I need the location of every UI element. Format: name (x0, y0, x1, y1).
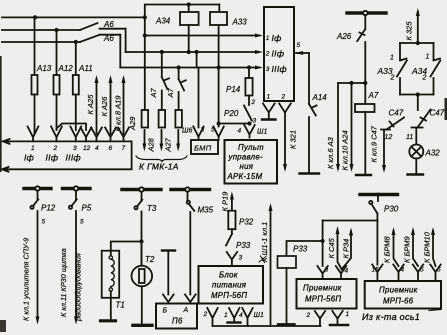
switch P30 (369, 197, 399, 221)
svg-text:15: 15 (372, 267, 380, 274)
connector fork pin 4 MRP-56P with arrows K S45 K R34 (327, 226, 353, 279)
svg-text:3: 3 (201, 127, 205, 134)
connector fork pin 6 (105, 128, 116, 142)
discharger T2 (132, 242, 155, 326)
svg-text:А6: А6 (103, 20, 114, 29)
svg-text:6: 6 (109, 145, 113, 152)
svg-text:11: 11 (406, 134, 413, 141)
svg-text:ния: ния (240, 162, 254, 171)
svg-text:Приемник: Приемник (379, 286, 418, 295)
connector fork pin 12 (81, 128, 92, 142)
power bus bar T3 (122, 187, 161, 191)
label Sh6 (182, 128, 192, 135)
arrow K P19 and fuse P32 (221, 191, 254, 234)
wire from A6 upper to IIf line (125, 29, 127, 52)
svg-text:1: 1 (224, 312, 228, 319)
svg-text:2: 2 (306, 312, 311, 319)
connector strip GMK-1A (2, 139, 132, 172)
svg-text:1: 1 (426, 54, 430, 61)
svg-text:Приемник: Приемник (303, 284, 342, 293)
box bottom pin numbers (267, 94, 286, 101)
fuse A12 (54, 30, 74, 130)
svg-text:Пульт: Пульт (238, 143, 264, 152)
svg-text:Р20: Р20 (224, 109, 239, 118)
svg-text:К 321: К 321 (289, 130, 298, 149)
svg-text:радиооборудования: радиооборудования (74, 253, 83, 322)
connector fork pin 3 BMP (193, 127, 204, 141)
svg-text:К Р19: К Р19 (221, 191, 230, 212)
svg-text:1: 1 (267, 94, 271, 101)
power bus bar M35 (171, 187, 210, 191)
svg-text:К кл.11 КР30 щитка: К кл.11 КР30 щитка (59, 248, 68, 317)
wire P30 to MRP-56P pin3 and MRP-66 pin15 (321, 221, 378, 267)
arrow K A26 (100, 75, 113, 134)
svg-text:7: 7 (122, 145, 126, 152)
svg-text:Р33: Р33 (236, 241, 251, 250)
svg-text:А32: А32 (425, 149, 441, 158)
switch M35 to P6 pin A (185, 192, 214, 304)
svg-text:С47: С47 (389, 109, 404, 118)
connector fork box pin1 with ground bar (262, 104, 276, 120)
fuse A33 (210, 12, 247, 27)
svg-text:Ш6: Ш6 (182, 128, 192, 135)
block ARK receiver (If IIf IIIf box) (264, 7, 294, 101)
svg-text:2: 2 (53, 145, 58, 152)
connector fork pin 2 below MRP-56P (306, 311, 326, 326)
connector fork pin 3 (70, 127, 81, 142)
svg-text:4: 4 (95, 145, 99, 152)
svg-text:К ГМК-1А: К ГМК-1А (139, 162, 179, 172)
svg-text:IIIф: IIIф (272, 64, 287, 74)
svg-text:А13: А13 (36, 64, 52, 73)
connector fork pin 4 MRP-66 with arrow K BRM8 (383, 227, 405, 281)
svg-text:А28: А28 (147, 137, 156, 152)
arrow K kl.6 A3 (326, 83, 340, 172)
connector fork pin 15 MRP-66 (372, 265, 383, 282)
fuse A34 (155, 12, 199, 26)
power bus bar P12 (24, 186, 51, 190)
svg-text:3: 3 (73, 145, 77, 152)
transformer T1 (loop coil) (101, 242, 142, 321)
wire BMP pin3 feed (197, 52, 199, 128)
svg-text:К кл.1 усилителя СПУ-9: К кл.1 усилителя СПУ-9 (22, 238, 31, 321)
svg-text:А11: А11 (78, 64, 93, 73)
connector fork pin 2 (51, 127, 62, 142)
breaker A34 (bridge right branch) (411, 43, 440, 95)
svg-text:М35: М35 (198, 206, 214, 215)
connector fork pin 3 blok pitaniya (227, 252, 243, 266)
svg-text:Б: Б (163, 308, 168, 315)
wire from A6 lower to IIIf line (119, 35, 121, 68)
connector fork Sh1 pin 4 (238, 125, 268, 138)
switch A6 (lower) (80, 34, 120, 43)
svg-text:Т2: Т2 (145, 255, 155, 264)
svg-text:3: 3 (266, 66, 270, 73)
wire IIf line with arrow (126, 50, 263, 54)
svg-text:2: 2 (281, 94, 286, 101)
svg-text:А12: А12 (58, 64, 74, 73)
svg-text:Р33: Р33 (293, 245, 308, 254)
text Iz k-ta os 1 (362, 310, 441, 323)
wire phase1 riser to fuse header (145, 2, 220, 17)
switch C47 contact 12 and arrow K kl.9 C47 (370, 109, 405, 174)
strip pin numbers (31, 145, 126, 152)
wire bus phase 3 (2, 40, 80, 44)
svg-text:3: 3 (253, 118, 257, 125)
connector fork pin 6 MRP-66 with arrow K BRM10 (423, 227, 442, 281)
svg-text:А: А (183, 307, 189, 314)
connector fork pin 1 (28, 127, 39, 142)
antenna stub to P6 pin B (162, 251, 175, 304)
switch T3 (134, 192, 156, 266)
svg-text:Блок: Блок (219, 271, 238, 280)
svg-text:2: 2 (251, 99, 256, 106)
svg-text:АРК-15М: АРК-15М (227, 172, 263, 181)
relay coil P33 with chassis bar (278, 241, 323, 325)
svg-text:К БРМ8: К БРМ8 (383, 235, 392, 263)
block P6 (156, 304, 197, 329)
svg-text:Р32: Р32 (239, 218, 254, 227)
svg-text:К А25: К А25 (86, 94, 95, 115)
switch A26 (336, 15, 365, 83)
switch A7 and fuse column A28 (147, 52, 170, 153)
svg-text:Р30: Р30 (384, 205, 399, 214)
connector fork pin 2 below blok (203, 308, 218, 326)
arrow K 325 (400, 8, 434, 45)
svg-text:1: 1 (31, 145, 35, 152)
svg-text:5: 5 (42, 219, 46, 226)
fuse A11 (73, 42, 93, 130)
wire bus phase 1 (2, 15, 147, 19)
svg-text:IIф: IIф (46, 153, 59, 163)
block Priemnik MRP-56P (297, 279, 357, 309)
svg-text:IIф: IIф (272, 49, 285, 59)
svg-text:5: 5 (211, 127, 215, 134)
wire A33 bottom to IIIf and pin5 drop (217, 25, 221, 127)
svg-text:Iф: Iф (24, 153, 34, 163)
svg-text:Р5: Р5 (82, 204, 92, 213)
svg-text:Ш1: Ш1 (257, 129, 267, 136)
svg-text:3: 3 (325, 267, 329, 274)
switch A6 (upper) (80, 20, 126, 30)
svg-text:К БРМ10: К БРМ10 (423, 231, 432, 263)
svg-text:4: 4 (345, 268, 349, 275)
switch P20 (224, 106, 257, 125)
svg-text:2: 2 (265, 51, 270, 58)
svg-text:А26: А26 (336, 32, 352, 41)
arrow K A25 (86, 75, 99, 134)
connector fork pin 1 below MRP-56P with ground (330, 311, 350, 325)
arrow K Sh1-1 kl.1 (259, 203, 273, 326)
svg-text:Т3: Т3 (147, 204, 157, 213)
svg-text:питания: питания (212, 281, 247, 290)
svg-text:1: 1 (346, 311, 350, 318)
lamp A32 (408, 128, 441, 175)
fuse A7 with ground (355, 83, 379, 175)
svg-text:Из к-та ось1: Из к-та ось1 (362, 312, 420, 322)
switch A7 and fuse column A27 (164, 68, 186, 153)
svg-text:К Р34: К Р34 (342, 239, 351, 259)
connector fork pin 5 MRP-66 with arrow K BRM9 (403, 227, 425, 281)
svg-text:К кл.9 С47: К кл.9 С47 (370, 125, 379, 162)
svg-text:управле-: управле- (228, 153, 264, 162)
svg-text:А7: А7 (166, 87, 175, 98)
svg-text:5: 5 (297, 42, 301, 49)
svg-text:IIIф: IIIф (66, 153, 81, 163)
svg-text:МРП-66: МРП-66 (383, 297, 414, 306)
arrow K kl.10 A24 (341, 83, 354, 172)
svg-text:К Ш1-1 кл.1: К Ш1-1 кл.1 (260, 222, 269, 262)
wire bridge bottom (400, 92, 434, 96)
svg-text:4: 4 (401, 267, 405, 274)
wire If line with arrow (143, 17, 263, 37)
svg-text:А7: А7 (368, 91, 379, 100)
svg-text:5: 5 (420, 267, 424, 274)
svg-text:4: 4 (239, 312, 243, 319)
svg-text:А27: А27 (164, 137, 173, 152)
svg-text:А33: А33 (232, 18, 248, 27)
svg-text:К БРМ9: К БРМ9 (403, 235, 412, 263)
svg-text:К кл.6 А3: К кл.6 А3 (326, 136, 335, 169)
svg-text:1: 1 (266, 35, 270, 42)
svg-text:А34: А34 (155, 17, 171, 26)
connector fork pin 4 below blok (239, 308, 264, 326)
brace and text K GMK-1A (136, 156, 187, 172)
fuse A13 (32, 17, 52, 133)
power bus bar A26 (347, 11, 386, 15)
wire bottom common net (213, 325, 321, 327)
wire bus phase 2 (2, 28, 80, 32)
block Priemnik MRP-66 (365, 281, 441, 309)
svg-text:4: 4 (238, 128, 242, 135)
power bus bar P30 (360, 193, 398, 197)
wire A34 bottom to IIf (187, 25, 191, 54)
svg-text:Ш1: Ш1 (254, 312, 264, 319)
switch P33 (226, 234, 251, 250)
connector fork box pin2 and arrow K321 (279, 104, 297, 173)
svg-text:5: 5 (80, 219, 84, 226)
switch A14 with ground (300, 53, 328, 174)
svg-text:А6: А6 (103, 34, 114, 43)
svg-text:2: 2 (422, 75, 427, 82)
svg-text:2: 2 (390, 75, 395, 82)
svg-text:К кл.8 А19: К кл.8 А19 (114, 95, 123, 132)
switch P12 and arrow K kl.1 usilitelya SPU-9 (22, 191, 56, 325)
switch C47 contact 11 (406, 95, 445, 142)
svg-text:МРП-56П: МРП-56П (211, 291, 247, 300)
svg-text:А29: А29 (128, 116, 137, 131)
svg-text:Iф: Iф (272, 33, 282, 43)
block BMP (191, 140, 218, 154)
fuse column A29 (128, 36, 148, 152)
svg-text:Р14: Р14 (226, 85, 241, 94)
svg-text:12: 12 (385, 134, 393, 141)
svg-text:А14: А14 (312, 93, 328, 102)
svg-text:А7: А7 (149, 87, 158, 98)
wire A26 branch header (338, 81, 367, 85)
svg-text:К А26: К А26 (100, 96, 109, 117)
svg-text:Т1: Т1 (116, 301, 125, 310)
svg-text:С47: С47 (430, 109, 445, 118)
connector fork pin 5 (211, 127, 224, 141)
svg-text:2: 2 (203, 311, 208, 318)
svg-text:К 325: К 325 (405, 21, 414, 41)
breaker A33 (bridge left branch) (377, 43, 407, 95)
wire bridge pin3 to pin12 (57, 124, 87, 131)
svg-text:БМП: БМП (194, 144, 212, 153)
svg-text:МРП-56П: МРП-56П (305, 295, 341, 304)
connector fork pin 4 (91, 128, 102, 142)
box pin 5 arrow entering right side (295, 42, 309, 55)
svg-text:Р12: Р12 (41, 204, 56, 213)
strip phase labels (24, 153, 81, 163)
block Blok pitaniya MRP-56P (199, 266, 264, 304)
connector fork pin 3 MRP-56P (317, 266, 328, 279)
block Pult upravleniya ARK-15M (225, 140, 278, 184)
svg-text:П6: П6 (172, 317, 183, 326)
svg-text:К С45: К С45 (327, 237, 336, 258)
box pin labels 1 If 2 IIf 3 IIIf (265, 33, 287, 74)
wire P20 node to fork5 (219, 121, 252, 125)
power bus bar P5 (63, 186, 91, 190)
svg-text:3: 3 (239, 255, 243, 262)
svg-text:К кл.10 А24: К кл.10 А24 (341, 130, 350, 170)
connector fork pin 7 (118, 128, 129, 142)
connector fork pin 1 below blok with ground (224, 308, 241, 323)
fuse P14 (226, 68, 256, 107)
switch P5 and arrow K kl.11 KR30 (59, 191, 92, 325)
svg-text:6: 6 (437, 267, 441, 274)
arrow K kl.8 A19 (114, 75, 126, 134)
svg-text:12: 12 (83, 145, 91, 152)
wire IIIf line with arrow (120, 65, 263, 69)
svg-text:1: 1 (390, 55, 394, 62)
